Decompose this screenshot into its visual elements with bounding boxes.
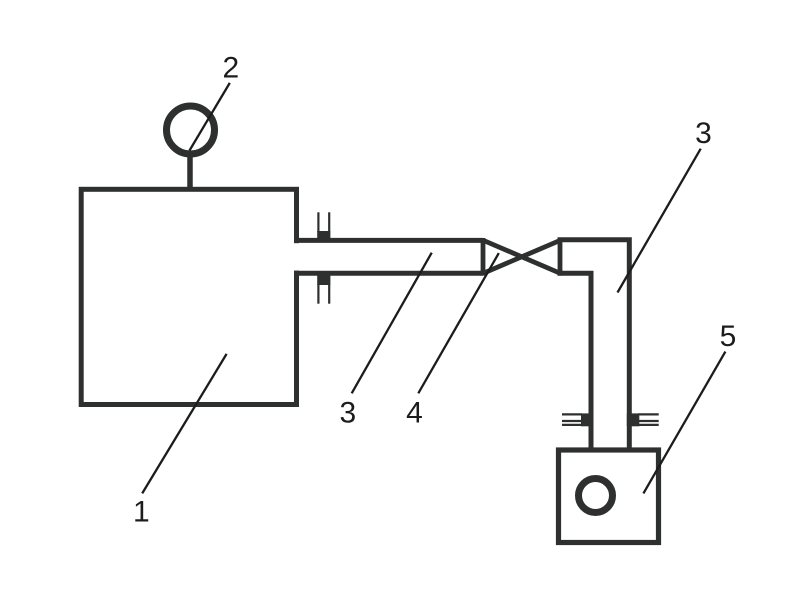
svg-text:1: 1 xyxy=(133,496,150,529)
svg-text:3: 3 xyxy=(340,397,357,430)
svg-text:5: 5 xyxy=(720,320,737,353)
svg-text:4: 4 xyxy=(406,397,423,430)
svg-text:2: 2 xyxy=(222,52,239,85)
svg-text:3: 3 xyxy=(695,117,712,150)
